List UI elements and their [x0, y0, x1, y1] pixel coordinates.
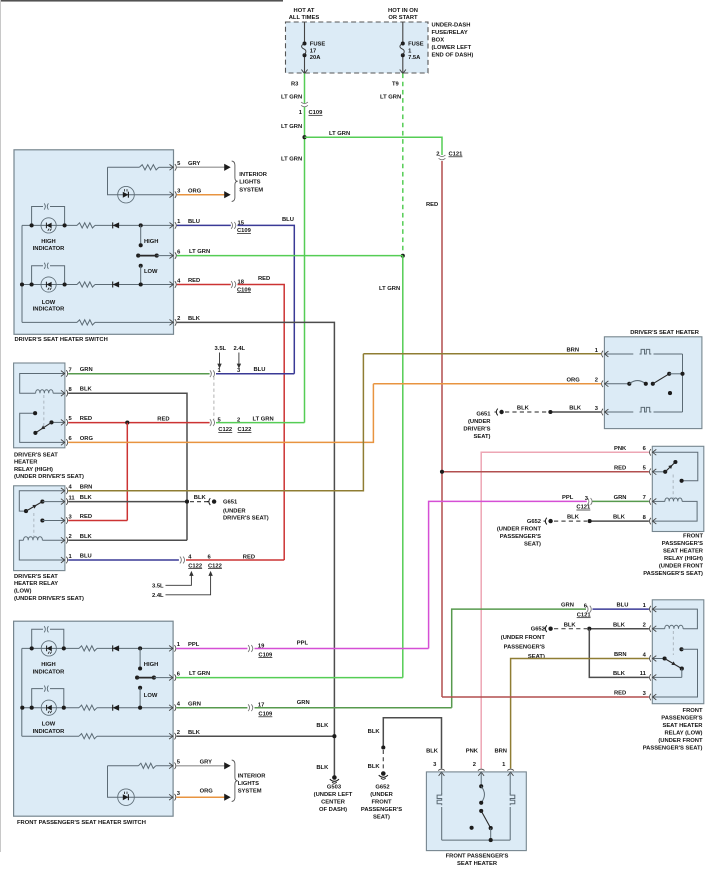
- pin 2 BLK (pass switch): [169, 733, 173, 739]
- svg-text:PNK: PNK: [466, 748, 479, 754]
- wire RED C122 to switch red: [186, 559, 284, 561]
- wire BLU pass relay low pin1: [593, 608, 649, 610]
- svg-text:LT GRN: LT GRN: [380, 95, 401, 101]
- svg-text:BLK: BLK: [188, 316, 201, 322]
- relay coil circuit (pass low): [652, 609, 697, 629]
- svg-text:BRN: BRN: [494, 748, 507, 754]
- svg-text:2.4L: 2.4L: [152, 593, 164, 599]
- fuse 1 7.5A: [401, 42, 405, 46]
- wire RED relay high pin5: [68, 422, 209, 424]
- wire RED to relay low C122: [238, 285, 285, 561]
- svg-text:2: 2: [643, 623, 646, 629]
- svg-text:INTERIOR: INTERIOR: [238, 773, 267, 779]
- svg-text:RED: RED: [80, 514, 92, 520]
- svg-text:BLK: BLK: [569, 406, 582, 412]
- wire BLU to C122: [238, 225, 295, 373]
- pin 8 BLK (pass relay high): [653, 518, 657, 524]
- svg-text:1: 1: [643, 603, 647, 609]
- svg-text:GRN: GRN: [561, 603, 574, 609]
- arrow to C122 pin 6: [166, 575, 211, 595]
- low row wires (pass): [22, 707, 79, 709]
- svg-text:DRIVER'S: DRIVER'S: [463, 427, 490, 433]
- svg-text:BLK: BLK: [316, 723, 329, 729]
- svg-text:PASSENGER'S: PASSENGER'S: [662, 541, 703, 547]
- pin 2 BLK (driver switch): [170, 320, 174, 326]
- svg-text:3: 3: [433, 762, 437, 768]
- svg-text:(UNDER FRONT: (UNDER FRONT: [497, 527, 542, 533]
- svg-text:1: 1: [595, 348, 599, 354]
- driver relay low box: [14, 486, 65, 571]
- wire LT GRN below C109: [304, 107, 306, 423]
- pin 11 BLK (pass relay low): [653, 675, 657, 681]
- svg-text:BLU: BLU: [282, 217, 294, 223]
- heater element high (driver): [604, 353, 633, 355]
- relay high mech link: [43, 395, 45, 426]
- svg-text:PASSENGER'S: PASSENGER'S: [361, 807, 402, 813]
- page frame left edge: [0, 0, 2, 852]
- blk row (driver switch): [22, 321, 77, 323]
- wire LT GRN branch to C121: [305, 137, 443, 155]
- arrow to C122 pin 3: [238, 353, 240, 366]
- svg-text:2: 2: [595, 378, 598, 384]
- relay coil (pass high): [652, 500, 665, 502]
- svg-text:G652: G652: [527, 519, 541, 525]
- wire BRN to driver heater: [363, 353, 601, 355]
- svg-text:BLU: BLU: [188, 219, 200, 225]
- svg-text:ALL TIMES: ALL TIMES: [289, 15, 320, 21]
- low contact dot (pass): [138, 706, 142, 710]
- svg-text:SEAT HEATER: SEAT HEATER: [662, 723, 703, 729]
- illumination resistor (driver): [108, 166, 140, 168]
- svg-text:(UNDER: (UNDER: [223, 508, 246, 514]
- low row diode (pass): [113, 705, 119, 711]
- wire RED down to relay low: [126, 423, 128, 521]
- svg-text:INDICATOR: INDICATOR: [33, 307, 65, 313]
- low row resistor (pass): [79, 705, 97, 710]
- wire BLK drop to pin11: [589, 629, 649, 678]
- high row resistor: [77, 223, 95, 228]
- heater right rail (driver): [682, 354, 684, 412]
- driver relay high box: [14, 363, 65, 448]
- svg-text:3.5L: 3.5L: [152, 584, 164, 590]
- svg-text:RED: RED: [243, 554, 255, 560]
- svg-text:3: 3: [595, 406, 599, 412]
- wire BLK dashed to G652 bottom: [382, 750, 384, 771]
- wire fuse 1 feed: [402, 22, 404, 44]
- passenger switch box: [14, 621, 174, 816]
- svg-text:5: 5: [643, 466, 647, 472]
- svg-text:BLK: BLK: [194, 495, 207, 501]
- svg-text:BOX: BOX: [432, 38, 445, 44]
- ground G651 (under driver's seat): [207, 501, 209, 503]
- wire ORG to driver heater: [373, 383, 601, 385]
- low indicator LED: [41, 277, 56, 292]
- svg-text:HIGH: HIGH: [41, 239, 56, 245]
- relay blade (pass high): [652, 471, 665, 473]
- wire BLK pass relay high pin8: [590, 520, 649, 522]
- svg-text:G652: G652: [531, 627, 545, 633]
- wire PPL to C121 riser: [255, 648, 429, 650]
- svg-text:LT GRN: LT GRN: [281, 124, 302, 130]
- wire BLK relay high pin8: [68, 393, 187, 540]
- svg-text:7: 7: [643, 495, 646, 501]
- svg-text:FUSE: FUSE: [310, 42, 326, 48]
- svg-text:(UNDER FRONT: (UNDER FRONT: [658, 738, 703, 744]
- svg-text:FRONT PASSENGER'S: FRONT PASSENGER'S: [446, 854, 509, 860]
- svg-text:HOT IN ON: HOT IN ON: [388, 8, 418, 14]
- svg-text:HEATER RELAY: HEATER RELAY: [14, 581, 58, 587]
- svg-text:BLK: BLK: [426, 748, 439, 754]
- wire BLK relay low pin2: [68, 539, 187, 541]
- pin 4 BRN (relay low): [61, 488, 65, 494]
- thermal switch (pass heater): [480, 772, 482, 786]
- svg-text:PPL: PPL: [562, 495, 574, 501]
- switch common (driver): [136, 254, 140, 258]
- high indicator LED (pass): [41, 641, 56, 656]
- svg-text:UNDER-DASH: UNDER-DASH: [432, 23, 471, 29]
- pin 3 BLK (driver heater): [605, 409, 609, 415]
- wire PNK pass relay to heater: [481, 452, 649, 768]
- svg-text:PASSENGER'S: PASSENGER'S: [500, 534, 541, 540]
- junction dot BLK G503: [332, 734, 336, 738]
- svg-text:(UNDER DRIVER'S SEAT): (UNDER DRIVER'S SEAT): [14, 474, 84, 480]
- svg-text:FUSE/RELAY: FUSE/RELAY: [432, 30, 468, 36]
- svg-text:BLK: BLK: [80, 495, 93, 501]
- svg-text:BLK: BLK: [567, 515, 580, 521]
- svg-text:LOW: LOW: [42, 300, 56, 306]
- junction dot BLK G652 high: [588, 519, 592, 523]
- pin 2 BLK (relay low): [61, 537, 65, 543]
- relay low switch feed: [19, 491, 65, 511]
- svg-text:HOT AT: HOT AT: [294, 8, 315, 14]
- driver's seat heater switch box: [14, 150, 174, 334]
- wire LT GRN from fuse 17: [304, 74, 306, 104]
- svg-text:LOW: LOW: [144, 269, 158, 275]
- switch common (pass): [135, 676, 139, 680]
- svg-text:4: 4: [69, 485, 73, 491]
- svg-text:PNK: PNK: [614, 446, 627, 452]
- relay blade (pass low): [652, 658, 664, 660]
- illumination lamp (pass): [118, 789, 135, 806]
- svg-text:11: 11: [640, 671, 647, 677]
- svg-text:LOW: LOW: [42, 721, 56, 727]
- svg-text:3: 3: [177, 791, 181, 797]
- svg-text:1: 1: [502, 762, 506, 768]
- svg-text:HIGH: HIGH: [144, 662, 159, 668]
- svg-text:PPL: PPL: [188, 642, 200, 648]
- svg-text:RED: RED: [614, 466, 626, 472]
- relay low mech link: [33, 513, 35, 537]
- svg-text:PASSENGER'S: PASSENGER'S: [661, 716, 702, 722]
- svg-text:INDICATOR: INDICATOR: [33, 729, 65, 735]
- pin 1 BLU (relay low): [61, 557, 65, 563]
- wire BLU relay low pin1: [68, 559, 179, 561]
- junction dot T9: [401, 254, 405, 258]
- wire RED relay low pin3: [68, 520, 127, 522]
- wire BRN relay low pin4: [68, 354, 363, 491]
- svg-text:LT GRN: LT GRN: [189, 671, 210, 677]
- svg-text:4: 4: [643, 652, 647, 658]
- svg-text:SYSTEM: SYSTEM: [239, 187, 263, 193]
- svg-text:BLK: BLK: [517, 406, 530, 412]
- svg-text:PPL: PPL: [297, 641, 309, 647]
- wire BLK dashed to G652 low: [554, 628, 587, 630]
- svg-text:HIGH: HIGH: [41, 662, 56, 668]
- svg-text:G651: G651: [223, 499, 238, 505]
- svg-text:4: 4: [177, 278, 181, 284]
- wire GRN pass relay high pin7: [592, 500, 649, 502]
- high row wires (pass): [22, 647, 79, 649]
- svg-text:FRONT: FRONT: [372, 800, 392, 806]
- wire ORG to interior lights: [177, 194, 225, 196]
- svg-text:G503: G503: [327, 785, 342, 791]
- pin 7 GRN (pass relay high): [653, 499, 657, 505]
- relay feed path (pass high): [652, 452, 698, 481]
- wire LT GRN T9 dashed: [402, 74, 404, 256]
- svg-text:BLK: BLK: [188, 730, 201, 736]
- low bypass loop (pass): [32, 689, 43, 708]
- pin 11 BLK (relay low): [61, 499, 65, 505]
- svg-text:5: 5: [177, 760, 181, 766]
- high row resistor (pass): [79, 646, 97, 651]
- wire RED pass relay high pin5: [442, 471, 649, 473]
- svg-text:CENTER: CENTER: [321, 800, 346, 806]
- svg-text:(LOWER LEFT: (LOWER LEFT: [432, 45, 472, 51]
- svg-text:20A: 20A: [310, 55, 321, 61]
- pin 6 ORG (relay high): [61, 440, 65, 446]
- pin 8 BLK (relay high): [61, 390, 65, 396]
- wire PPL to passenger switch: [429, 501, 587, 648]
- low indicator bypass loop: [32, 266, 43, 285]
- wire GRY (pass switch pin5): [176, 765, 224, 767]
- heater bottom rail (pass): [442, 839, 511, 841]
- high row diode (pass): [113, 645, 119, 651]
- svg-text:END OF DASH): END OF DASH): [432, 53, 474, 59]
- svg-text:(UNDER: (UNDER: [370, 792, 393, 798]
- left rail (pass switch): [21, 648, 23, 736]
- high indicator LED: [41, 218, 56, 233]
- svg-text:G651: G651: [476, 412, 491, 418]
- pin 1 (pass heater): [508, 772, 514, 776]
- svg-text:6: 6: [643, 446, 647, 452]
- svg-text:BLK: BLK: [613, 622, 626, 628]
- svg-text:SYSTEM: SYSTEM: [238, 788, 262, 794]
- low contact dot: [139, 282, 143, 286]
- pin 5 RED (pass relay high): [653, 469, 657, 475]
- svg-text:INDICATOR: INDICATOR: [33, 670, 65, 676]
- svg-text:6: 6: [177, 671, 181, 677]
- svg-text:RELAY (HIGH): RELAY (HIGH): [14, 467, 53, 473]
- under-dash fuse/relay box: [286, 22, 429, 73]
- svg-text:GRN: GRN: [188, 701, 201, 707]
- high indicator bypass loop: [32, 207, 43, 226]
- pin 3 ORG (pass switch): [169, 794, 173, 800]
- low row wires: [22, 284, 77, 286]
- svg-text:3: 3: [643, 691, 647, 697]
- illumination resistor (pass): [108, 765, 139, 767]
- pin 6 PNK (pass relay high): [653, 449, 657, 455]
- svg-text:RED: RED: [157, 417, 169, 423]
- relay low blade: [26, 502, 42, 512]
- svg-text:FRONT: FRONT: [683, 708, 703, 714]
- page frame top edge: [0, 0, 283, 2]
- passenger relay low box: [652, 600, 704, 704]
- heater element left (pass): [441, 772, 443, 794]
- svg-text:PASSENGER'S: PASSENGER'S: [504, 645, 545, 651]
- svg-text:(UNDER: (UNDER: [468, 419, 491, 425]
- svg-text:4: 4: [177, 702, 181, 708]
- svg-text:1: 1: [69, 554, 73, 560]
- svg-text:GRN: GRN: [297, 700, 310, 706]
- svg-text:BLK: BLK: [564, 622, 577, 628]
- svg-text:PASSENGER'S SEAT): PASSENGER'S SEAT): [643, 746, 703, 752]
- wire BLU (driver switch pin 1): [177, 224, 231, 226]
- relay high blade: [52, 421, 65, 423]
- mech link (pass high): [672, 475, 674, 499]
- passenger relay high box: [652, 446, 704, 531]
- fuse 17 20A: [303, 42, 307, 46]
- svg-text:ORG: ORG: [567, 377, 581, 383]
- svg-text:BLK: BLK: [80, 534, 93, 540]
- svg-text:(UNDER DRIVER'S SEAT): (UNDER DRIVER'S SEAT): [14, 596, 84, 602]
- svg-text:BLK: BLK: [613, 671, 626, 677]
- driver's seat heater box: [604, 337, 702, 429]
- svg-text:BLK: BLK: [613, 515, 626, 521]
- connector 1 C109: [301, 102, 308, 104]
- wire BLK dashed to G652 high: [554, 520, 587, 522]
- wire GRN relay high pin7: [68, 373, 209, 375]
- svg-text:R3: R3: [291, 82, 299, 88]
- junction dot BLK G651: [185, 500, 189, 504]
- connector C122 row1: [210, 370, 212, 377]
- svg-text:FRONT: FRONT: [683, 534, 703, 540]
- svg-text:7: 7: [69, 367, 72, 373]
- pin 3 RED (pass relay low): [653, 694, 657, 700]
- ground G651 (driver heater): [495, 411, 497, 413]
- svg-text:ORG: ORG: [188, 188, 202, 194]
- svg-text:GRY: GRY: [200, 759, 212, 765]
- svg-text:GRY: GRY: [188, 161, 200, 167]
- wire fuse 17 feed: [304, 22, 306, 44]
- pin 4 GRN (pass switch): [169, 705, 173, 711]
- svg-text:INTERIOR: INTERIOR: [239, 172, 268, 178]
- relay high coil circuit: [20, 374, 65, 394]
- svg-text:LT GRN: LT GRN: [281, 95, 302, 101]
- pin 6 LT GRN (driver switch): [170, 253, 174, 259]
- pin 7 GRN (relay high): [61, 371, 65, 377]
- low row diode: [113, 282, 119, 288]
- pin 2 (pass heater): [478, 772, 484, 776]
- connector C122 row2: [210, 419, 212, 426]
- svg-text:BLU: BLU: [254, 367, 266, 373]
- svg-text:LT GRN: LT GRN: [329, 131, 350, 137]
- high row diode: [113, 222, 119, 228]
- svg-text:3.5L: 3.5L: [215, 346, 227, 352]
- svg-text:GRN: GRN: [80, 367, 93, 373]
- wire BLK relay low pin11: [68, 501, 187, 503]
- wire LT GRN T9 solid down: [402, 256, 404, 678]
- svg-text:BLK: BLK: [80, 387, 93, 393]
- svg-text:1: 1: [177, 642, 181, 648]
- ground G652 (pass relay low): [544, 628, 546, 630]
- arrow to C122 pin 1: [219, 353, 221, 366]
- pin 2 ORG (driver heater): [605, 381, 609, 387]
- wire PPL (pass switch pin1): [176, 648, 247, 650]
- junction dot LT GRN branch: [302, 135, 306, 139]
- svg-text:8: 8: [643, 515, 647, 521]
- wire ORG (pass switch pin3): [176, 796, 224, 798]
- wire BLK pass relay low pin2: [589, 628, 649, 630]
- thermal switch (driver heater): [604, 383, 629, 385]
- wire LT GRN (pass switch pin6): [176, 677, 402, 679]
- wire BLK (pass switch pin2): [176, 735, 334, 737]
- svg-text:RELAY (LOW): RELAY (LOW): [664, 731, 702, 737]
- svg-text:HIGH: HIGH: [144, 239, 159, 245]
- wire BLK (driver switch pin 2): [177, 322, 335, 776]
- pin 3 (pass heater): [439, 772, 445, 776]
- svg-text:1: 1: [299, 110, 303, 116]
- pin 1 BRN (driver heater): [605, 351, 609, 357]
- svg-text:8: 8: [69, 387, 73, 393]
- svg-text:BRN: BRN: [80, 484, 93, 490]
- junction dot red: [125, 421, 129, 425]
- svg-text:LOW: LOW: [144, 693, 158, 699]
- wire ORG relay high pin6: [68, 384, 373, 443]
- svg-text:LIGHTS: LIGHTS: [239, 180, 260, 186]
- svg-text:2: 2: [473, 762, 476, 768]
- interior lights brace (pass): [232, 760, 238, 802]
- ground G652 (pass relay high): [544, 520, 546, 522]
- high contact: [139, 223, 143, 227]
- svg-text:OR START: OR START: [388, 15, 418, 21]
- junction dot BLK G652 bottom: [381, 745, 385, 749]
- svg-text:SEAT): SEAT): [373, 815, 390, 821]
- pin 3 RED (relay low): [61, 518, 65, 524]
- wire LT GRN C122 to feed: [216, 422, 305, 424]
- wire RED (driver switch pin 4): [177, 284, 231, 286]
- svg-text:DRIVER'S SEAT): DRIVER'S SEAT): [223, 516, 269, 522]
- svg-text:BLU: BLU: [617, 603, 629, 609]
- svg-text:6: 6: [69, 436, 73, 442]
- pin 6 LT GRN (pass switch): [169, 675, 173, 681]
- wire BLK passenger heater pin3: [383, 718, 441, 769]
- mech link (pass low): [672, 631, 674, 655]
- svg-text:SEAT): SEAT): [524, 542, 541, 548]
- svg-text:BRN: BRN: [614, 652, 627, 658]
- wire BRN pass relay low pin4: [511, 659, 649, 769]
- relay high NC contact: [20, 413, 65, 442]
- ground G652 (bottom): [381, 771, 386, 776]
- wire RED from C121 down: [441, 161, 443, 697]
- relay low NO contact: [40, 518, 44, 522]
- passenger heater box: [426, 772, 526, 851]
- svg-text:INDICATOR: INDICATOR: [33, 246, 65, 252]
- svg-text:SEAT HEATER: SEAT HEATER: [457, 861, 498, 867]
- svg-text:LT GRN: LT GRN: [189, 249, 210, 255]
- svg-text:FUSE: FUSE: [408, 42, 424, 48]
- svg-text:17: 17: [310, 48, 316, 54]
- connector 17 C109: [248, 704, 250, 711]
- svg-text:7.5A: 7.5A: [408, 55, 421, 61]
- svg-text:5: 5: [177, 161, 181, 167]
- svg-text:(UNDER LEFT: (UNDER LEFT: [314, 792, 353, 798]
- svg-text:PASSENGER'S SEAT): PASSENGER'S SEAT): [643, 571, 703, 577]
- svg-text:GRN: GRN: [614, 495, 627, 501]
- relay low coil: [42, 539, 65, 541]
- wire BLK driver heater pin3: [550, 411, 601, 413]
- pin 2 BLK (pass relay low): [653, 626, 657, 632]
- dashed link C122: [213, 377, 215, 420]
